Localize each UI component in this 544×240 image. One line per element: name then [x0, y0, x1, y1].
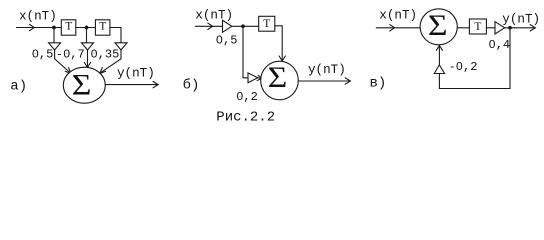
arrowhead output (fig v) [530, 25, 535, 31]
wire input (fig v) [376, 27, 420, 29]
arrowhead into summator mid (fig a) [84, 63, 90, 68]
wire arrowhead on input (fig a) [30, 24, 35, 30]
node x(nT) label (fig v) [379, 8, 417, 22]
svg-text:-0,7: -0,7 [56, 47, 85, 61]
svg-text:T: T [99, 21, 106, 33]
value label 0,2 (fig b) [236, 90, 258, 104]
svg-text:0,5: 0,5 [216, 34, 238, 48]
summator circle (fig a) [63, 67, 105, 103]
summator circle (fig v) [420, 9, 457, 45]
node x(nT) label (fig b) [195, 8, 233, 22]
svg-text:x(nT): x(nT) [19, 9, 57, 23]
value label -0,7 (fig a) [56, 47, 85, 61]
gain triangle -0,7 (fig a) [82, 43, 94, 50]
wire arrowhead on input (fig b) [208, 23, 213, 29]
arrowhead output (fig a) [153, 81, 158, 87]
arrowhead into summator bottom (fig v) [436, 46, 442, 51]
svg-text:-0,2: -0,2 [449, 60, 478, 74]
node y(nT) label (fig v) [502, 12, 540, 26]
wire triangle to summator bottom (fig v) [438, 46, 440, 65]
sub-figure label v) [370, 76, 387, 92]
svg-text:Рис.2.2: Рис.2.2 [216, 110, 275, 126]
gain triangle 0,5 (fig b) [223, 20, 232, 32]
svg-text:T: T [65, 21, 72, 33]
wire triangle2 to summator (fig a) [87, 50, 89, 67]
svg-text:T: T [263, 18, 270, 30]
sub-figure label a) [10, 79, 27, 95]
svg-text:б): б) [183, 77, 200, 94]
summator circle (fig b) [261, 61, 299, 100]
sub-figure label b) [183, 77, 200, 94]
svg-text:0,4: 0,4 [489, 38, 511, 52]
wire input (fig a) [17, 27, 62, 29]
wire T1 to T2 (fig a) [76, 27, 96, 29]
svg-text:в): в) [370, 76, 387, 92]
wire output y(nT) (fig v) [505, 27, 535, 29]
svg-text:0,2: 0,2 [236, 90, 258, 104]
arrowhead into summator top (fig b) [279, 56, 285, 61]
value label 0,5 (fig b) [216, 34, 238, 48]
wire output y(nT) (fig b) [298, 80, 350, 82]
wire triangle to T box (fig b) [232, 25, 259, 27]
gain triangle 0,5 (fig a) [49, 43, 61, 50]
node junction dot 1 (fig a) [52, 26, 56, 30]
wire summator to T box (fig v) [457, 27, 469, 29]
svg-text:0,5: 0,5 [32, 47, 54, 61]
delay T box (fig b) [259, 16, 275, 31]
node y(nT) label (fig b) [308, 63, 346, 77]
arrowhead output (fig b) [345, 78, 350, 84]
arrowhead into summator left (fig b) [257, 75, 262, 80]
svg-text:Σ: Σ [268, 61, 288, 94]
svg-text:0,35: 0,35 [91, 47, 120, 61]
svg-text:Σ: Σ [428, 9, 448, 42]
value label 0,5 (fig a) [32, 47, 54, 61]
wire triangle3 to summator (fig a) [100, 50, 121, 73]
wire branch 2 (fig a) [86, 28, 88, 43]
svg-text:y(nT): y(nT) [502, 12, 540, 26]
delay T2 box (fig a) [95, 20, 110, 35]
node junction dot 2 (fig a) [85, 26, 89, 30]
node x(nT) label (fig a) [19, 9, 57, 23]
wire triangle apex to summator (fig b) [258, 77, 262, 79]
delay T box (fig v) [469, 19, 486, 34]
svg-text:x(nT): x(nT) [195, 8, 233, 22]
wire branch 1 (fig a) [53, 28, 55, 43]
svg-text:а): а) [10, 79, 27, 95]
value label -0,2 (fig v) [449, 60, 478, 74]
node y(nT) label (fig a) [117, 67, 155, 81]
gain triangle 0,4 (fig v) [495, 22, 505, 34]
arrowhead into summator left (fig a) [65, 68, 71, 74]
gain triangle 0,35 (fig a) [115, 43, 127, 50]
svg-text:x(nT): x(nT) [379, 8, 417, 22]
wire T box output to summator top (fig b) [275, 26, 282, 61]
wire T2 output to corner (fig a) [110, 28, 121, 43]
wire triangle1 to summator (fig a) [55, 50, 71, 73]
delay T1 box (fig a) [61, 20, 76, 35]
svg-text:T: T [474, 21, 481, 33]
gain triangle 0,2 (fig b) [248, 73, 258, 83]
value label 0,35 (fig a) [91, 47, 120, 61]
node junction dot (fig v) [508, 26, 512, 30]
svg-text:Σ: Σ [72, 68, 92, 101]
svg-text:y(nT): y(nT) [308, 63, 346, 77]
wire output y(nT) (fig a) [105, 84, 157, 86]
wire T box to triangle (fig v) [486, 27, 495, 29]
value label 0,4 (fig v) [489, 38, 511, 52]
svg-text:y(nT): y(nT) [117, 67, 155, 81]
gain triangle -0,2 (fig v) [434, 65, 444, 74]
caption Ris.2.2 [216, 110, 275, 126]
wire input (fig b) [195, 25, 222, 27]
wire feedback right-down-left (fig v) [439, 28, 510, 89]
arrowhead into summator right (fig a) [100, 68, 106, 74]
wire feedback down (fig b) [243, 26, 248, 78]
node junction dot (fig b) [241, 24, 245, 28]
wire arrowhead on input (fig v) [390, 25, 395, 31]
